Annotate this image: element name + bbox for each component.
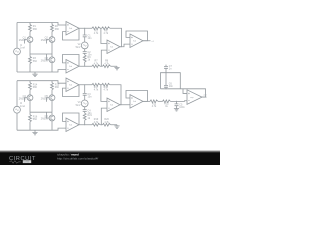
svg-text:10n: 10n	[88, 96, 93, 99]
svg-text:1n: 1n	[169, 68, 172, 71]
wire noninverting input riser	[100, 50, 107, 66]
svg-text:10n: 10n	[169, 85, 174, 88]
wire I1 to bottom rail	[16, 55, 18, 72]
resistor R1	[29, 23, 38, 37]
svg-text:4.7k: 4.7k	[94, 32, 99, 35]
svg-text:amp: amp	[190, 97, 193, 99]
wire OA3 feedback from rail	[110, 28, 122, 47]
svg-text:680: 680	[55, 28, 60, 31]
svg-text:2N390: 2N390	[19, 97, 27, 100]
ground at R20	[114, 125, 119, 129]
svg-text:2N390: 2N390	[41, 39, 49, 42]
wire feedback box left leg	[161, 73, 181, 89]
wire OA5 feedback loop	[63, 85, 80, 97]
svg-text:4.7k: 4.7k	[104, 89, 109, 92]
wire mid rail block 1	[30, 53, 52, 55]
resistor R5	[92, 27, 100, 35]
op-amp OA1 (top buffer)	[66, 22, 79, 36]
wire inverting input drop	[100, 85, 107, 102]
transistor Q5	[41, 95, 55, 102]
svg-text:http://circuitlab.com/c/aadcd4: http://circuitlab.com/c/aadcd4f	[57, 157, 98, 161]
svg-text:1k: 1k	[165, 105, 168, 108]
wire OA8 feedback	[126, 91, 148, 102]
wire OA6 output rail	[79, 124, 92, 126]
wire OA1 output rail	[79, 27, 92, 29]
ground block 2	[32, 130, 37, 135]
svg-text:1mA: 1mA	[20, 47, 25, 50]
svg-text:4.7k: 4.7k	[104, 62, 109, 65]
svg-text:100n: 100n	[179, 106, 185, 109]
wire OA2 output rail	[79, 65, 92, 67]
resistor R9	[83, 53, 91, 66]
svg-text:CIRCUIT: CIRCUIT	[9, 156, 36, 162]
svg-text:680: 680	[33, 86, 38, 89]
resistor R6	[102, 27, 110, 35]
svg-text:4.7k: 4.7k	[94, 121, 99, 124]
svg-text:560: 560	[33, 118, 38, 121]
source V2	[76, 42, 89, 49]
wire to ground	[111, 65, 117, 67]
capacitor C1	[83, 28, 92, 40]
ground under C5	[174, 109, 179, 111]
wire	[84, 95, 86, 100]
op-amp OA3 (summing)	[107, 40, 120, 54]
capacitor C5 to ground	[175, 101, 186, 109]
wire	[158, 100, 163, 102]
resistor R14	[29, 81, 38, 95]
transistor Q3	[41, 54, 55, 72]
wire OA6 feedback loop	[63, 113, 80, 125]
svg-text:4.7k: 4.7k	[94, 62, 99, 65]
wire OA7 to OA8	[120, 104, 130, 106]
wire top rail of block 1	[17, 23, 66, 26]
resistor R17	[92, 83, 100, 91]
transistor Q2	[41, 37, 55, 44]
svg-text:560: 560	[33, 60, 38, 63]
transistor Q6	[41, 112, 55, 130]
source V3	[76, 100, 89, 107]
wire	[84, 37, 86, 42]
wire to op-amp OA9	[171, 100, 188, 103]
capacitor C4	[83, 107, 92, 115]
resistor R12	[163, 100, 171, 108]
wire Q4 emitter	[29, 101, 31, 113]
ground block 1	[32, 72, 37, 77]
transistor Q4	[19, 95, 33, 102]
svg-text:1mA: 1mA	[20, 105, 25, 108]
op-amp OA9 (final)	[187, 90, 202, 105]
svg-text:4.7k: 4.7k	[104, 121, 109, 124]
resistor R20	[103, 118, 111, 126]
wire OA1 feedback loop	[63, 28, 80, 40]
svg-text:LAB: LAB	[24, 160, 30, 164]
svg-text:2N390: 2N390	[41, 60, 49, 63]
junction dots top	[84, 28, 102, 67]
op-amp OA5 (top buffer block 2)	[66, 78, 79, 92]
current source I1	[14, 44, 26, 55]
junction dots bottom	[84, 84, 177, 125]
svg-text:2N390: 2N390	[41, 118, 49, 121]
wire mid rail block 2	[30, 111, 52, 113]
wire OA4 feedback	[126, 31, 148, 41]
wire OA5 output rail	[79, 84, 92, 86]
current source I2	[14, 102, 26, 113]
svg-text:680: 680	[33, 28, 38, 31]
wire OA9 output stub	[202, 96, 207, 98]
svg-text:5mV: 5mV	[76, 104, 81, 107]
wire Q1 emitter	[29, 42, 31, 54]
wire left rail down to source I1	[16, 23, 18, 49]
wire OA9 feedback line	[161, 89, 206, 97]
ground at R8	[114, 66, 119, 70]
wire OA9 inverting input	[183, 89, 187, 94]
wire Q5 emitter	[51, 101, 53, 113]
op-amp OA8 (output stage block 2)	[130, 95, 143, 109]
svg-text:680: 680	[55, 86, 60, 89]
wire OA2 feedback loop	[63, 55, 80, 67]
resistor R15	[51, 81, 60, 95]
svg-text:4.7k: 4.7k	[104, 32, 109, 35]
svg-text:1k: 1k	[88, 117, 91, 120]
resistor R18	[102, 83, 110, 91]
svg-text:out: out	[204, 94, 207, 97]
svg-text:v1: v1	[152, 41, 155, 43]
svg-text:4.7k: 4.7k	[94, 89, 99, 92]
transistor Q1	[19, 37, 33, 44]
resistor R11	[150, 100, 158, 108]
svg-text:2N390: 2N390	[19, 39, 27, 42]
wire noninverting input riser	[100, 108, 107, 125]
resistor R19	[92, 118, 100, 126]
wire OA7 feedback from rail	[110, 85, 121, 105]
capacitor C6	[164, 83, 173, 89]
wire OA8 output	[143, 100, 150, 102]
op-amp OA2 (lower buffer)	[66, 60, 79, 74]
wire bottom rail of block 1	[17, 70, 66, 72]
wire I2 to bottom rail	[16, 113, 18, 130]
capacitor C3	[83, 85, 92, 99]
svg-text:2N390: 2N390	[41, 97, 49, 100]
op-amp OA7 (summing block 2)	[107, 98, 120, 112]
wire Q2 emitter	[51, 42, 53, 54]
resistor R8	[103, 60, 111, 68]
op-amp OA4 (output stage top)	[130, 34, 143, 48]
op-amp OA6 (lower buffer block 2)	[66, 118, 79, 132]
resistor R21	[83, 112, 92, 125]
wire bottom rail of block 2	[17, 128, 66, 130]
resistor R2	[51, 23, 60, 37]
wire inverting input drop	[100, 28, 107, 43]
resistor R7	[92, 60, 100, 68]
wire OA3 to OA4	[120, 44, 130, 47]
resistor R16	[29, 112, 38, 130]
resistor R3	[29, 54, 38, 72]
svg-text:5mV: 5mV	[76, 46, 81, 49]
wire left rail down to source I2	[16, 81, 18, 107]
capacitor C7	[164, 65, 173, 86]
svg-text:1k: 1k	[88, 59, 91, 62]
svg-text:10n: 10n	[88, 37, 93, 40]
wire OA4 output stub	[143, 40, 151, 42]
wire to ground	[111, 124, 117, 126]
capacitor C2	[83, 49, 92, 57]
svg-text:4.7k: 4.7k	[152, 105, 157, 108]
wire top rail of block 2	[17, 81, 66, 84]
